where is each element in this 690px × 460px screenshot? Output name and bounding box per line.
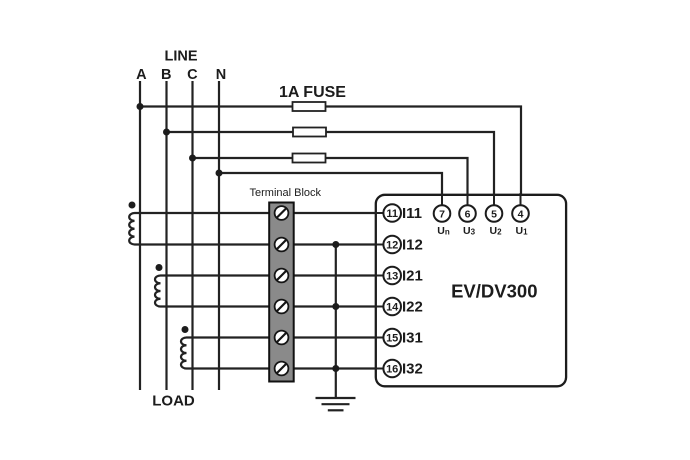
- svg-text:U3: U3: [463, 225, 476, 237]
- svg-text:EV/DV300: EV/DV300: [451, 281, 537, 302]
- svg-text:C: C: [187, 67, 198, 83]
- svg-text:I11: I11: [402, 205, 422, 222]
- svg-text:I31: I31: [402, 330, 423, 347]
- svg-text:I22: I22: [402, 299, 423, 316]
- svg-text:U1: U1: [515, 225, 528, 237]
- svg-text:I21: I21: [402, 268, 423, 285]
- svg-text:4: 4: [518, 208, 524, 220]
- svg-text:7: 7: [439, 208, 445, 220]
- svg-text:1A FUSE: 1A FUSE: [279, 84, 346, 101]
- svg-text:14: 14: [386, 302, 399, 314]
- svg-text:12: 12: [386, 240, 398, 252]
- svg-text:I32: I32: [402, 361, 423, 378]
- svg-text:B: B: [161, 67, 171, 83]
- svg-text:A: A: [136, 67, 147, 83]
- svg-text:11: 11: [386, 208, 398, 220]
- svg-text:N: N: [216, 67, 226, 83]
- svg-text:U2: U2: [489, 225, 502, 237]
- svg-text:LINE: LINE: [164, 49, 197, 65]
- svg-text:Un: Un: [437, 225, 450, 237]
- svg-text:Terminal Block: Terminal Block: [250, 187, 322, 199]
- svg-text:5: 5: [491, 208, 497, 220]
- svg-text:15: 15: [386, 333, 398, 345]
- svg-text:6: 6: [465, 208, 471, 220]
- svg-text:LOAD: LOAD: [152, 393, 195, 410]
- svg-text:13: 13: [386, 271, 398, 283]
- svg-text:16: 16: [386, 364, 398, 376]
- svg-text:I12: I12: [402, 237, 423, 254]
